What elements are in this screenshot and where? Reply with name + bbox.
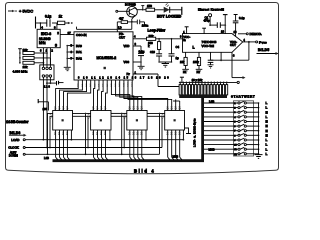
- svg-text:10k: 10k: [180, 60, 185, 64]
- svg-text:RA0: RA0: [76, 44, 82, 48]
- counter U5: [91, 111, 111, 131]
- svg-text:H: H: [266, 133, 268, 137]
- resistor network common bar: [179, 95, 227, 98]
- resistor R2 at 4046: [193, 52, 201, 74]
- bus thick vertical: [201, 98, 204, 161]
- node dots select lines: [43, 52, 48, 64]
- svg-text:12k: 12k: [23, 65, 28, 69]
- pin PD-OUT: [119, 32, 147, 39]
- resistor 12k (bottom): [23, 61, 35, 69]
- resistor 22k loop filter: [147, 34, 183, 40]
- wires carry/borrow between counters: [73, 113, 165, 116]
- svg-text:100k: 100k: [193, 60, 199, 64]
- svg-text:C10: C10: [150, 50, 155, 54]
- svg-text:+ 5VDC: + 5VDC: [19, 9, 33, 14]
- pin 8 stub into oscillator top: [54, 23, 57, 30]
- svg-text:Q3: Q3: [139, 106, 143, 110]
- capacitor C2 0.1u (series plates): [45, 15, 51, 27]
- pin 1 stub of U3: [183, 27, 188, 34]
- svg-text:L: L: [266, 101, 268, 105]
- svg-text:L: L: [266, 115, 268, 119]
- node dots on pull-up rail: [19, 52, 21, 64]
- svg-text:Bild 4: Bild 4: [134, 168, 155, 173]
- wires counter LOAD taps: [71, 130, 185, 141]
- svg-text:LSB: LSB: [44, 156, 49, 160]
- svg-text:L: L: [266, 152, 268, 156]
- capacitor C3 at 4046 bottom: [208, 52, 214, 65]
- svg-text:H: H: [266, 129, 268, 133]
- wire N1 counter data: [56, 80, 79, 110]
- svg-text:27: 27: [68, 31, 72, 35]
- wire select line 3: [34, 62, 43, 64]
- svg-text:470p: 470p: [204, 19, 211, 23]
- LED D1: [155, 3, 182, 13]
- pin VSS: [124, 60, 142, 64]
- svg-text:BILD5: BILD5: [258, 48, 270, 52]
- wire 4046 pin 3 down with arrow terminal: [232, 52, 246, 79]
- wire N13 counter data: [124, 80, 168, 110]
- svg-text:L: L: [266, 147, 268, 151]
- wire N4 counter data: [67, 80, 90, 110]
- svg-text:DOWN: DOWN: [9, 154, 18, 158]
- svg-text:LOW- u. HIGH-Byte: LOW- u. HIGH-Byte: [193, 118, 197, 147]
- counter U6: [127, 111, 147, 131]
- capacitor C4 1u loop filter: [169, 38, 180, 62]
- svg-text:0.1µ: 0.1µ: [139, 49, 145, 53]
- bus thick horizontal: [53, 159, 205, 162]
- pin VDD: [124, 42, 142, 48]
- wire LD pin to network: [77, 22, 132, 30]
- resistor 4k7 at emitter: [117, 17, 132, 32]
- counter U4: [53, 111, 73, 131]
- wire loop filter common ground rail: [158, 61, 172, 63]
- wire VCO out net along bottom: [211, 52, 249, 61]
- svg-text:RA2: RA2: [76, 57, 82, 61]
- svg-text:180: 180: [43, 107, 48, 111]
- wires clock and up/down taps: [47, 113, 163, 156]
- svg-text:1 2 3: 1 2 3: [44, 85, 50, 89]
- svg-text:9 10 11 12 13 14 15 16 17 18 1: 9 10 11 12 13 14 15 16 17 18 19 20: [78, 77, 170, 80]
- switch S1.7 with row wire and level: [204, 129, 268, 133]
- node junction on +5V rail: [40, 22, 42, 24]
- ground RA rail: [64, 67, 71, 70]
- svg-text:C4: C4: [176, 45, 180, 49]
- svg-text:BILD3: BILD3: [10, 131, 21, 135]
- svg-text:R2: R2: [197, 70, 201, 74]
- svg-text:H: H: [266, 124, 268, 128]
- switch S1.12 with row wire and level: [204, 152, 268, 156]
- resistor 100k loop filter vertical: [148, 38, 161, 54]
- svg-text:0.1µ: 0.1µ: [239, 16, 245, 20]
- IC U3 74HC4046 VCO: [180, 34, 243, 53]
- wire resistor pack supply rail with terminal: [179, 81, 239, 83]
- switch S1.2 with row wire and level: [204, 106, 268, 110]
- resistor network 16x comb: [179, 82, 228, 95]
- svg-text:LD: LD: [118, 26, 121, 30]
- wire 4046 pin 1 lock to top: [202, 28, 206, 33]
- jumper header JP1: [40, 53, 54, 80]
- +5V tap for pull-up resistors: [18, 49, 22, 63]
- svg-text:Q3: Q3: [65, 106, 69, 110]
- resistor 12k (top): [23, 48, 35, 55]
- ground R2: [196, 69, 203, 71]
- terminal bar to counter clock row: [38, 99, 48, 111]
- node F-vco junction: [243, 38, 267, 44]
- svg-text:4k7: 4k7: [119, 17, 124, 21]
- svg-text:OSC-IN: OSC-IN: [76, 33, 87, 37]
- switch S1.10 with row wire and level: [204, 143, 268, 147]
- oscillator module U1 EXO-3 16.3840 MHz: [37, 29, 60, 47]
- pin Fv feedback input: [127, 70, 180, 86]
- switch S1.5 with row wire and level: [204, 120, 268, 124]
- transistor Q1 BC548B: [125, 3, 137, 22]
- svg-text:Einrast Kontroll!: Einrast Kontroll!: [198, 7, 224, 11]
- wire N10 counter data: [116, 80, 134, 110]
- svg-text:Loop-Filter: Loop-Filter: [148, 29, 166, 33]
- wire N3 counter data: [64, 80, 87, 110]
- pin RA1: [67, 50, 82, 54]
- pin RA2: [67, 56, 82, 60]
- svg-text:0.1µ: 0.1µ: [45, 15, 51, 19]
- capacitor 0.1u at VDD: [138, 46, 145, 66]
- capacitor 0.1u series top of 4046: [204, 15, 226, 28]
- node collector junction with +5 tick: [137, 6, 144, 11]
- switch S1.4 with row wire and level: [204, 115, 268, 119]
- switch S1.11 with row wire and level: [204, 147, 268, 151]
- wire +5V rail to oscillator: [36, 17, 73, 29]
- wire N11 counter data: [120, 80, 138, 110]
- carry out termination of U7: [185, 128, 192, 134]
- label BILD3 with arrow: [9, 131, 27, 137]
- svg-text:DEMOD.: DEMOD.: [250, 32, 263, 36]
- terminal LOAD: [11, 138, 183, 142]
- svg-text:3: 3: [55, 44, 57, 48]
- svg-text:L: L: [266, 106, 268, 110]
- wire demod from pin 10: [234, 30, 263, 36]
- svg-text:L: L: [266, 138, 268, 142]
- power bar +5V at 4046 pin 16: [221, 15, 228, 34]
- resistor 150 LED series: [144, 4, 155, 11]
- svg-text:OUT: OUT: [230, 43, 236, 47]
- U2 bottom pin name smudges: [78, 82, 134, 87]
- wire N9 counter data: [111, 80, 129, 110]
- pin RA0: [67, 44, 82, 48]
- resistor R1 at 4046: [180, 52, 187, 74]
- switch S1.9 with row wire and level: [204, 138, 268, 142]
- +5V bar for resistor pack: [180, 77, 184, 82]
- svg-text:Q3: Q3: [103, 106, 107, 110]
- svg-text:MHz: MHz: [39, 41, 46, 45]
- wire N2 counter data: [60, 80, 83, 110]
- IC U2 MC145151-2 PLL synthesizer: [74, 32, 133, 80]
- pin 4 stub into oscillator top: [40, 23, 43, 30]
- svg-text:H: H: [266, 120, 268, 124]
- svg-text:14-Bit-Counter: 14-Bit-Counter: [6, 120, 29, 124]
- switch S1.1 with row wire and level: [204, 101, 268, 105]
- pins 6 1 2 under oscillator: [40, 48, 53, 65]
- svg-text:L: L: [266, 143, 268, 147]
- wire oscillator pin 2 output to OSC-IN: [57, 31, 74, 35]
- svg-text:4.096 MHz: 4.096 MHz: [13, 69, 28, 73]
- switch block S1: [204, 101, 268, 156]
- svg-text:R1: R1: [183, 70, 187, 74]
- svg-text:L: L: [193, 45, 195, 49]
- svg-text:NOT LOCKED: NOT LOCKED: [157, 14, 182, 18]
- svg-text:RA1: RA1: [76, 50, 82, 54]
- ground capacitor C3: [208, 65, 214, 68]
- wire right rail to ground: [258, 103, 260, 155]
- switch S1.3 with row wire and level: [204, 110, 268, 114]
- svg-text:MC145151-2: MC145151-2: [97, 56, 117, 60]
- wire N6 counter data: [98, 80, 100, 110]
- svg-text:CLOCK: CLOCK: [8, 146, 18, 150]
- node +5VDC supply terminal: [8, 9, 33, 14]
- resistor 12k (middle): [23, 56, 34, 59]
- label BILD 5 with arrow: [257, 48, 279, 55]
- terminal CLOCK: [8, 146, 162, 150]
- ground loop filter: [162, 64, 169, 68]
- wire N7 counter data: [102, 80, 104, 110]
- svg-text:BC548B: BC548B: [125, 3, 136, 7]
- ground R1: [182, 69, 189, 71]
- terminal arrow to transistor base: [116, 10, 130, 12]
- wire N5 counter data: [94, 80, 95, 110]
- svg-text:F-vco: F-vco: [259, 40, 267, 44]
- svg-text:STARTWERT: STARTWERT: [231, 94, 255, 98]
- svg-text:100n: 100n: [142, 24, 149, 28]
- svg-text:1µ: 1µ: [176, 56, 180, 60]
- wire N12 counter data: [132, 80, 142, 110]
- resistor R3 1k on rail: [58, 15, 65, 25]
- svg-text:VSS: VSS: [124, 60, 130, 64]
- svg-text:VDD: VDD: [124, 44, 130, 48]
- wire select line 1: [34, 52, 47, 54]
- switch S1.8 with row wire and level: [204, 133, 268, 137]
- wires N-input staircase from U2 to counters: [56, 80, 180, 110]
- counter U7: [165, 111, 185, 131]
- border frame: [6, 3, 279, 174]
- svg-text:VCO-Teil: VCO-Teil: [202, 44, 215, 48]
- terminal AUF/DOWN: [9, 151, 160, 158]
- svg-text:1k: 1k: [59, 15, 63, 19]
- svg-text:H: H: [266, 110, 268, 114]
- capacitor 0.1u decoupling at U3 right: [233, 15, 245, 37]
- counter pin label smudges: [49, 106, 182, 136]
- capacitor 100n coupling: [132, 20, 149, 28]
- ground VDD/VSS: [138, 66, 145, 69]
- svg-text:12k: 12k: [23, 48, 28, 52]
- wire N14 counter data: [128, 80, 172, 110]
- switch S1.6 with row wire and level: [204, 124, 268, 128]
- wire select line 2: [34, 57, 50, 59]
- svg-text:LOAD: LOAD: [11, 138, 20, 142]
- svg-text:EXO-3: EXO-3: [41, 32, 51, 36]
- svg-text:10 x 10k: 10 x 10k: [192, 78, 203, 82]
- capacitor C9 loop filter: [156, 54, 162, 62]
- testpoint circle above 4046: [209, 14, 212, 26]
- ground switch rail: [255, 155, 263, 159]
- wires below jumper header: [43, 77, 57, 148]
- terminal bar lock detect line: [181, 7, 183, 15]
- svg-text:OUT: OUT: [119, 35, 125, 39]
- wires counter load data to bus: [56, 130, 182, 160]
- wire F-vco down to VCO net: [248, 42, 250, 60]
- wire N8 counter data: [106, 80, 108, 110]
- svg-text:Q3: Q3: [177, 106, 181, 110]
- wire RA rail to ground: [66, 45, 68, 68]
- terminal bar feed at counter A: [59, 81, 64, 85]
- svg-text:150: 150: [147, 4, 152, 8]
